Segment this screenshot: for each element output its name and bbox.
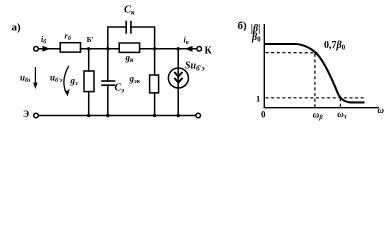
svg-text:iб: iб (41, 35, 47, 46)
resistor g_k (119, 43, 139, 52)
junction bottom rail source (177, 114, 180, 117)
arrow arc u_b'e (64, 66, 69, 94)
wire g_ek branch upper (154, 49, 156, 75)
wire top rail between r_b and g_k boxes (81, 48, 120, 50)
svg-text:б): б) (238, 20, 248, 32)
dashed level 1 (266, 97, 366, 99)
svg-text:0: 0 (261, 109, 266, 119)
terminal K collector (197, 47, 202, 52)
current source S arrows (174, 72, 182, 83)
wire C_k loop right side (131, 27, 155, 49)
capacitor C_k plates (125, 22, 127, 33)
wire bottom emitter rail (38, 115, 196, 117)
svg-text:Suб'э: Suб'э (185, 61, 205, 73)
junction bottom rail C_e (106, 114, 109, 117)
arrow u_b (34, 67, 36, 86)
junction curve dot omega_beta (315, 52, 318, 55)
wire g_e branch lower (88, 92, 90, 116)
svg-text:ωт: ωт (337, 109, 347, 121)
resistor g_e (84, 71, 94, 92)
junction top rail source (177, 47, 180, 50)
svg-text:gэк: gэк (129, 74, 141, 86)
capacitor C_e plates (102, 80, 115, 82)
svg-text:uбэ: uбэ (20, 73, 31, 85)
svg-text:gк: gк (125, 53, 135, 65)
wire C_e branch upper (107, 49, 109, 81)
axis x (264, 107, 379, 109)
svg-text:Э: Э (23, 109, 29, 119)
svg-text:а): а) (12, 22, 22, 34)
junction bottom rail g_e (87, 114, 90, 117)
junction top rail C_e (106, 47, 109, 50)
svg-text:0,7β0: 0,7β0 (324, 40, 346, 52)
svg-text:Cэ: Cэ (115, 83, 125, 95)
terminal bottom right (196, 113, 201, 118)
arrow i_b (43, 46, 51, 52)
svg-text:ω: ω (378, 105, 385, 115)
resistor R r_b (60, 43, 80, 52)
wire current source branch (177, 49, 179, 116)
wire g_e branch upper (88, 49, 90, 71)
svg-text:uб'э: uб'э (50, 73, 63, 85)
svg-text:Б': Б' (87, 35, 94, 44)
svg-text:iк: iк (184, 36, 190, 47)
resistor g_ek (150, 75, 159, 93)
terminal input base (34, 47, 39, 52)
svg-text:gэ: gэ (70, 76, 79, 88)
svg-text:rб: rб (65, 31, 72, 43)
terminal E emitter (34, 113, 39, 118)
axis y (263, 24, 265, 108)
current source S circle (168, 68, 188, 88)
wire C_e branch lower (107, 85, 109, 115)
svg-text:ωβ: ωβ (313, 109, 324, 121)
dashed vertical omega_beta (314, 54, 316, 107)
svg-text:1: 1 (256, 94, 260, 104)
junction top rail g_ek (153, 47, 156, 50)
graph axes (264, 24, 379, 108)
dashed vertical omega_t (339, 98, 341, 107)
arrow i_k (185, 46, 192, 52)
wire top rail input segment (38, 48, 60, 50)
curve beta(omega) (264, 44, 364, 102)
wire C_k loop top with risers (108, 27, 126, 49)
svg-text:К: К (205, 46, 213, 57)
junction node B' (87, 47, 90, 50)
junction bottom rail g_ek (153, 114, 156, 117)
wire top rail right segment to K (140, 48, 197, 50)
dashed level 0.7beta0 (266, 52, 316, 54)
wire g_ek branch lower (154, 93, 156, 116)
svg-text:Cк: Cк (124, 5, 135, 17)
